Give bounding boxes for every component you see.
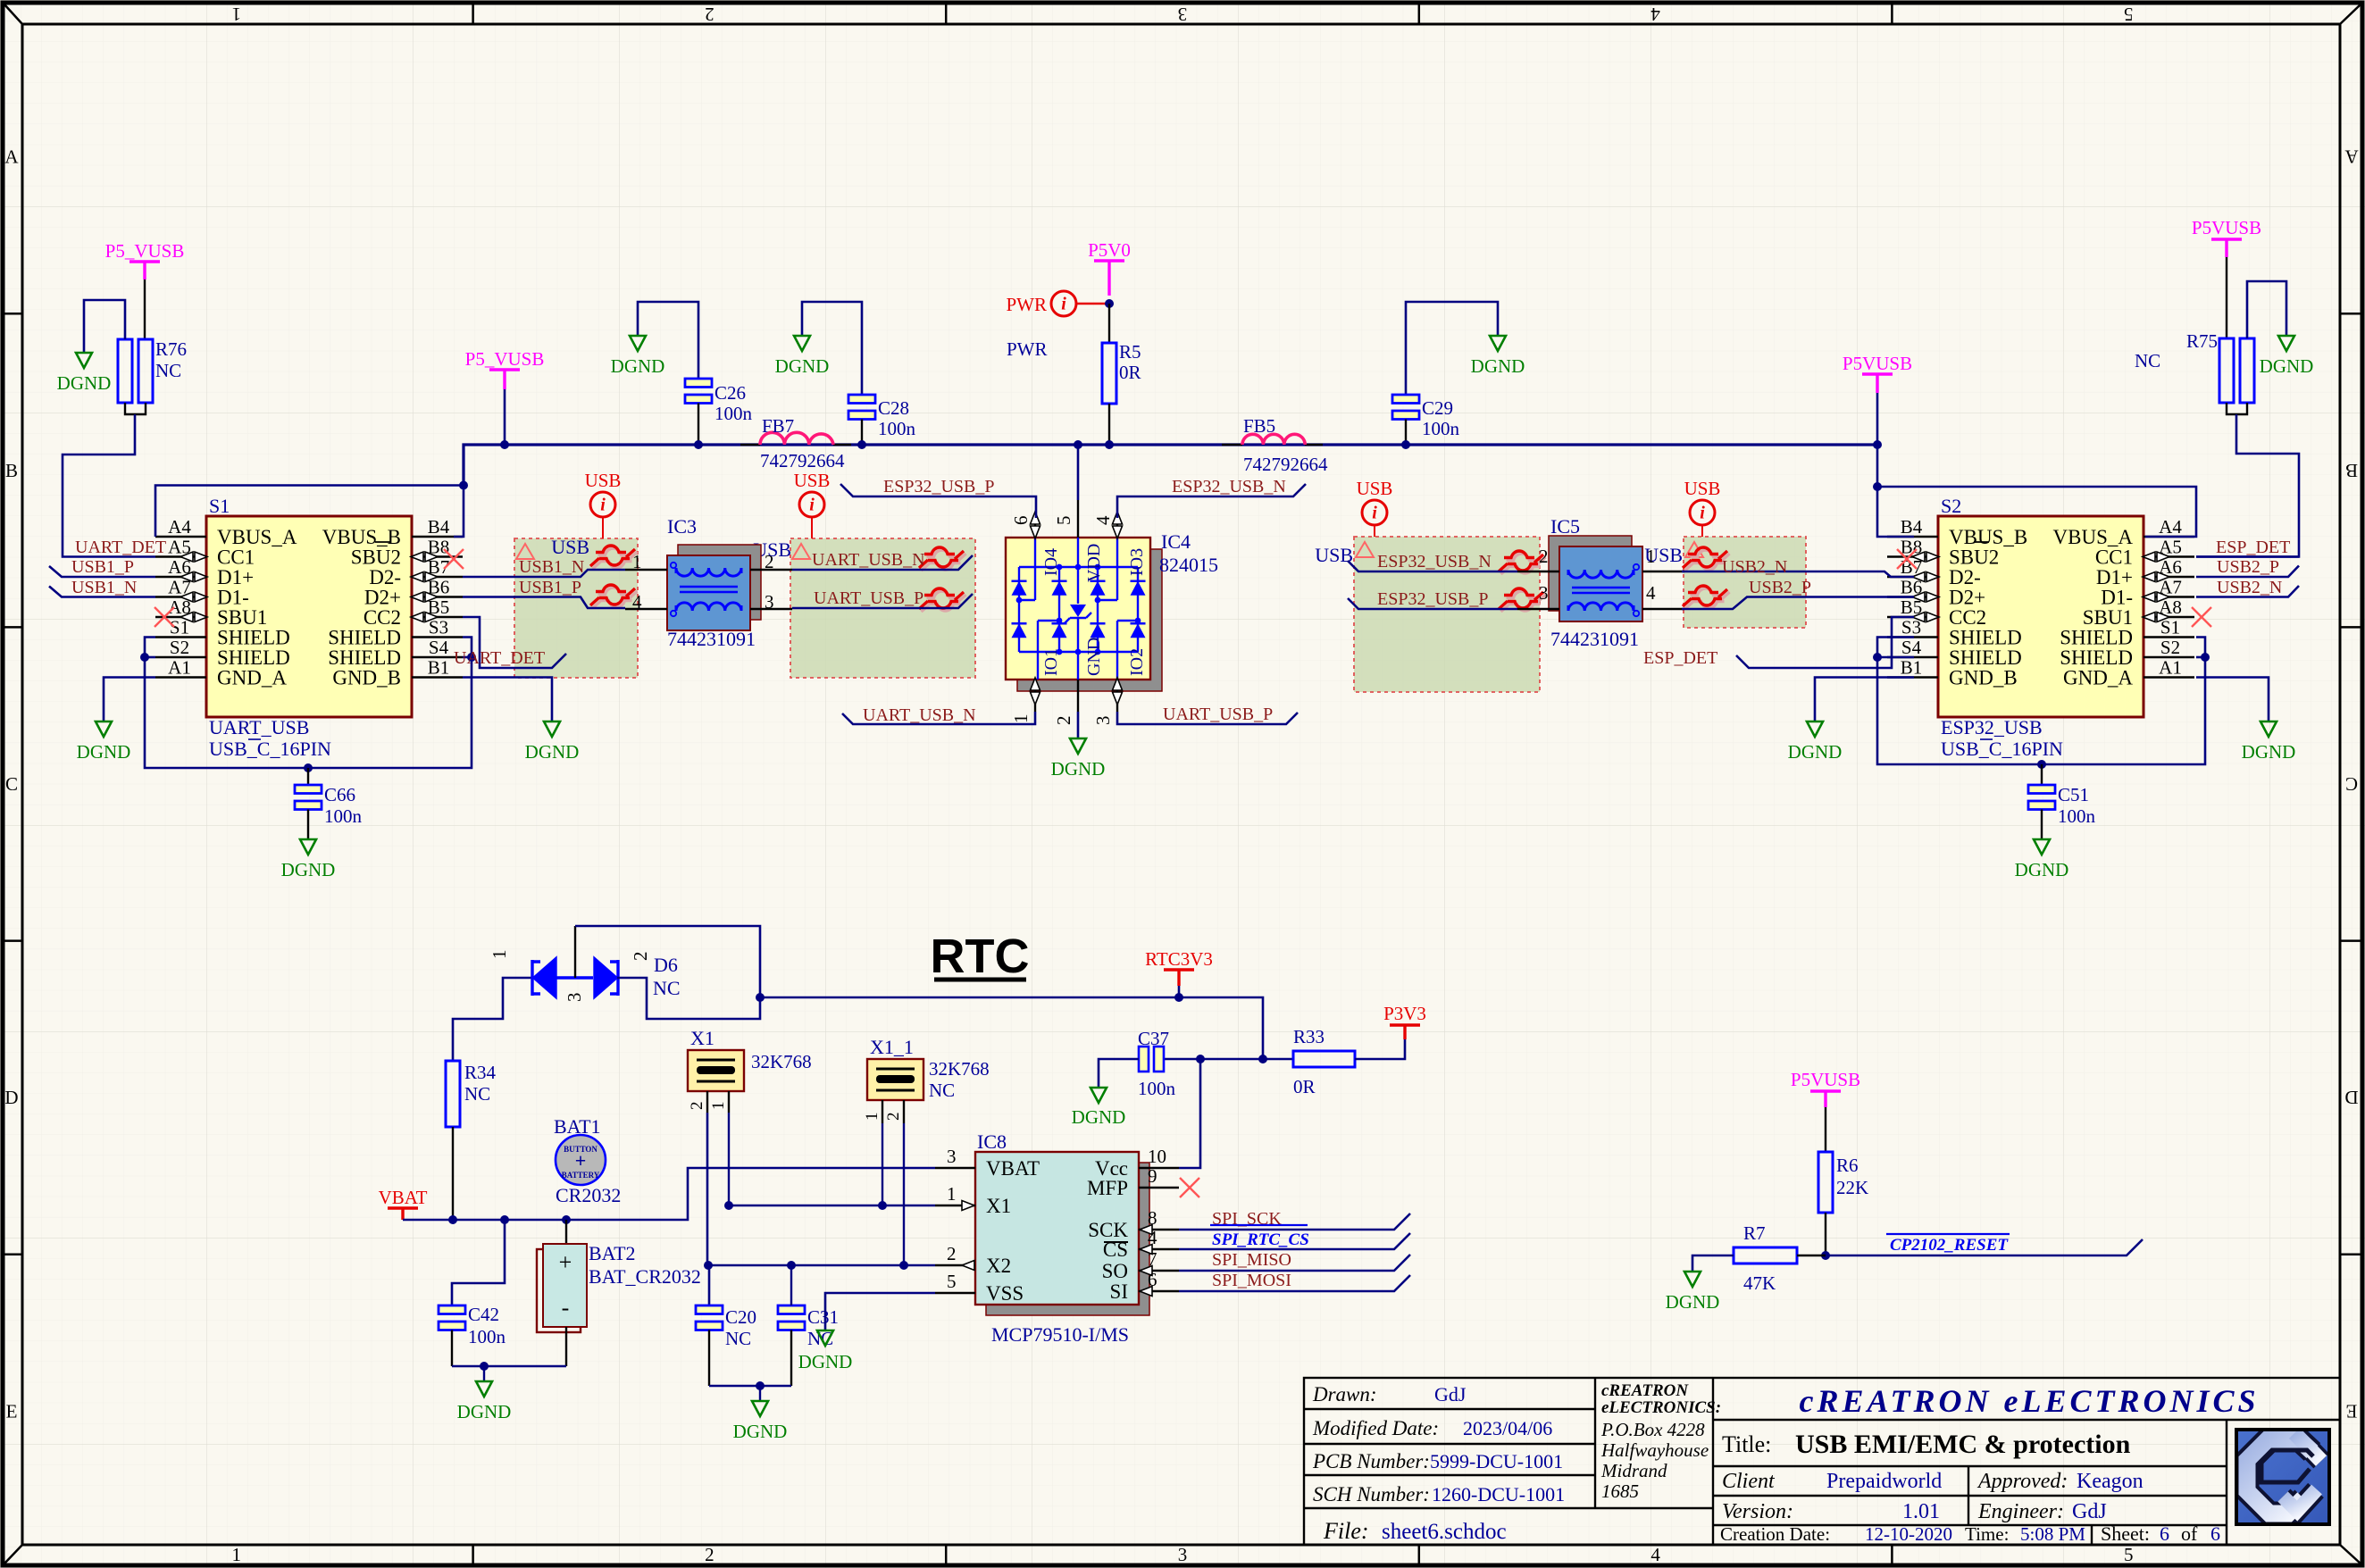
node X1row-816	[724, 1201, 733, 1210]
capacitor C29	[1392, 395, 1419, 404]
svg-text:VBUS_B: VBUS_B	[322, 526, 401, 548]
node bus-R5	[1105, 440, 1114, 449]
svg-text:B7: B7	[1901, 556, 1923, 578]
svg-text:100n: 100n	[878, 418, 916, 439]
capacitor C51	[2028, 785, 2055, 794]
wire X1.2 drop	[707, 1113, 709, 1305]
svg-text:eLECTRONICS:: eLECTRONICS:	[1601, 1398, 1721, 1417]
wire ESP_DET (S2 CC1)	[2196, 555, 2299, 558]
svg-text:S4: S4	[429, 637, 449, 658]
svg-text:i: i	[600, 496, 606, 515]
svg-text:DGND: DGND	[2015, 859, 2069, 880]
svg-text:S3: S3	[429, 617, 448, 638]
wire SPI_MISO	[1179, 1255, 1410, 1271]
svg-text:P5VUSB: P5VUSB	[2192, 217, 2261, 238]
no-ERC S2 B8	[1897, 549, 1917, 569]
svg-text:12-10-2020: 12-10-2020	[1865, 1523, 1952, 1545]
svg-text:100n: 100n	[468, 1326, 506, 1347]
svg-text:C37: C37	[1138, 1028, 1169, 1049]
svg-text:4: 4	[632, 591, 642, 613]
ground DGND (C29)	[1490, 336, 1506, 351]
svg-text:2: 2	[630, 952, 651, 962]
svg-text:UART_USB_P: UART_USB_P	[1163, 705, 1273, 724]
svg-text:0R: 0R	[1293, 1076, 1316, 1097]
ground DGND (C66)	[300, 839, 316, 855]
wire S1 GND_A to DGND	[104, 678, 155, 722]
wire USB1_N	[463, 570, 625, 577]
svg-text:USB2_N: USB2_N	[1722, 557, 1787, 577]
svg-text:X1: X1	[986, 1195, 1011, 1217]
svg-text:i: i	[1372, 504, 1377, 523]
no-ERC S1 A8	[155, 607, 174, 627]
svg-text:ESP_DET: ESP_DET	[1643, 648, 1717, 668]
svg-text:A5: A5	[168, 537, 191, 558]
svg-text:SBU1: SBU1	[217, 606, 267, 629]
svg-text:2: 2	[1539, 546, 1549, 567]
wire R7 to R6 node	[1797, 1255, 1826, 1256]
ground DGND (C37)	[1091, 1088, 1107, 1103]
svg-text:6: 6	[1010, 516, 1032, 526]
svg-text:S1: S1	[2160, 617, 2180, 638]
wire R6 bottom	[1825, 1213, 1826, 1255]
node rail-R34	[448, 1215, 457, 1224]
svg-text:A8: A8	[2159, 596, 2182, 618]
wire VSS to DGND	[825, 1293, 935, 1330]
svg-text:USB: USB	[1684, 478, 1721, 499]
ground DGND (C42/BAT2)	[476, 1381, 492, 1397]
ground DGND (S2 GND_B)	[1807, 721, 1823, 737]
node bus-P5VUSB	[500, 440, 509, 449]
svg-text:USB: USB	[551, 536, 589, 558]
svg-text:FB5: FB5	[1243, 415, 1275, 437]
wire P5VUSB stem S2	[1876, 393, 1879, 445]
svg-text:BAT1: BAT1	[554, 1115, 601, 1138]
svg-text:R76: R76	[155, 338, 187, 360]
svg-text:USB2_P: USB2_P	[1749, 578, 1811, 597]
svg-text:R5: R5	[1119, 341, 1141, 363]
svg-text:RTC: RTC	[931, 930, 1030, 983]
X1_1 pin stubs	[882, 1100, 883, 1123]
svg-text:D2-: D2-	[1949, 566, 1981, 588]
svg-text:Engineer:: Engineer:	[1977, 1500, 2064, 1523]
svg-text:B1: B1	[428, 657, 450, 679]
svg-text:DGND: DGND	[733, 1421, 788, 1442]
blanket USB pair (S1 side)	[514, 538, 638, 678]
capacitor C42	[439, 1305, 465, 1314]
svg-text:R75: R75	[2186, 330, 2218, 352]
svg-text:ESP32_USB_N: ESP32_USB_N	[1377, 552, 1492, 571]
IC4 bottom pin stubs	[1034, 680, 1036, 712]
svg-text:ESP_DET: ESP_DET	[2216, 538, 2290, 557]
svg-text:5999-DCU-1001: 5999-DCU-1001	[1430, 1450, 1563, 1472]
svg-text:Sheet:: Sheet:	[2101, 1522, 2150, 1545]
svg-text:IO1: IO1	[1041, 648, 1061, 676]
svg-text:3: 3	[1092, 716, 1114, 726]
svg-text:CC1: CC1	[217, 546, 255, 569]
svg-text:B5: B5	[428, 596, 450, 618]
wire X1_1.1 drop	[882, 1123, 883, 1205]
svg-text:USB: USB	[1315, 544, 1353, 566]
svg-text:5:08 PM: 5:08 PM	[2020, 1523, 2085, 1545]
wire RTC3V3 rail	[760, 997, 1263, 1059]
svg-text:cREATRON eLECTRONICS: cREATRON eLECTRONICS	[1799, 1383, 2259, 1419]
svg-text:22K: 22K	[1836, 1177, 1868, 1198]
svg-text:D2-: D2-	[369, 566, 401, 588]
wire X1_1.2 drop	[903, 1123, 905, 1265]
node D6-RTC3V3	[756, 993, 765, 1002]
wire UART_USB_P (IC4)	[1117, 712, 1298, 724]
svg-text:CC1: CC1	[2095, 546, 2133, 569]
svg-text:USB: USB	[794, 470, 831, 491]
svg-text:47K: 47K	[1743, 1272, 1776, 1294]
svg-text:D6: D6	[654, 954, 678, 976]
USB-C connector S1 body	[206, 516, 412, 717]
resistor R6	[1818, 1152, 1833, 1213]
svg-text:3: 3	[1539, 582, 1549, 604]
wire C37 left to DGND	[1099, 1059, 1139, 1088]
svg-text:100n: 100n	[715, 403, 753, 424]
svg-text:P5_VUSB: P5_VUSB	[105, 240, 185, 262]
wire S2 S4pin	[1877, 656, 1914, 659]
svg-text:D1+: D1+	[217, 566, 254, 588]
svg-text:VDD: VDD	[1084, 544, 1104, 582]
ground DGND (S1 GND_B)	[544, 721, 560, 737]
svg-text:SHIELD: SHIELD	[217, 646, 290, 669]
svg-text:B4: B4	[1901, 516, 1923, 538]
svg-text:DGND: DGND	[775, 355, 830, 377]
no-ERC S2 A8	[2192, 607, 2211, 627]
wire USB1_P stub	[49, 566, 155, 577]
ESD array IC4 body	[1006, 538, 1150, 680]
wire R75 bottom to ESP_DET	[2227, 403, 2247, 414]
wire ESP32_USB_N (IC4)	[1117, 484, 1306, 518]
wire Vcc riser	[1179, 1059, 1200, 1168]
svg-text:S2: S2	[170, 637, 189, 658]
svg-text:B: B	[2345, 460, 2358, 481]
crystal X1	[688, 1050, 744, 1091]
wire VBUS_A feed	[155, 486, 464, 538]
svg-text:SHIELD: SHIELD	[2060, 646, 2133, 669]
S1 pin stubs	[155, 536, 206, 538]
svg-text:BATTERY: BATTERY	[562, 1171, 600, 1180]
svg-text:32K768: 32K768	[751, 1051, 812, 1072]
node X2row-1012	[899, 1261, 908, 1270]
wire S2 shield right riser	[2042, 638, 2205, 765]
wire USB2_N (to S2)	[1682, 571, 1914, 577]
svg-text:GND_A: GND_A	[2063, 667, 2133, 689]
ground DGND (C20/C31)	[752, 1401, 768, 1416]
common-mode choke IC3	[678, 545, 761, 620]
svg-text:DGND: DGND	[1051, 758, 1106, 780]
svg-text:ESP32_USB: ESP32_USB	[1941, 716, 2043, 738]
svg-text:1.01: 1.01	[1902, 1500, 1940, 1523]
svg-text:4: 4	[1148, 1227, 1157, 1248]
svg-text:3: 3	[1178, 4, 1188, 25]
svg-text:GND: GND	[1084, 638, 1104, 676]
svg-text:R6: R6	[1836, 1155, 1859, 1176]
blanket ESP32_USB pair	[1354, 537, 1540, 692]
svg-text:C26: C26	[715, 382, 746, 404]
svg-text:GND_A: GND_A	[217, 667, 287, 689]
capacitor C28	[848, 395, 875, 404]
svg-text:D: D	[2344, 1087, 2358, 1108]
wire S1 shield right riser	[308, 638, 472, 769]
svg-text:2: 2	[705, 1544, 715, 1565]
wire IC4 GND to DGND	[1077, 712, 1080, 738]
ground DGND (S1 GND_A)	[96, 721, 112, 737]
svg-text:CC2: CC2	[1949, 606, 1986, 629]
svg-text:DGND: DGND	[798, 1351, 853, 1372]
svg-text:VBUS_A: VBUS_A	[2053, 526, 2134, 548]
svg-text:USB2_N: USB2_N	[2217, 578, 2282, 597]
svg-text:BAT_CR2032: BAT_CR2032	[589, 1265, 701, 1288]
svg-text:4: 4	[1650, 4, 1660, 25]
svg-text:1: 1	[632, 551, 642, 572]
capacitor C66	[295, 785, 322, 794]
wire S2 VBUS riser	[1877, 445, 1914, 537]
svg-text:SHIELD: SHIELD	[328, 627, 401, 649]
svg-text:C: C	[2345, 773, 2358, 795]
node S1-S4pin	[467, 653, 476, 662]
node X1row-988	[878, 1201, 887, 1210]
svg-text:PWR: PWR	[1007, 338, 1048, 360]
wire C42 top	[452, 1220, 505, 1305]
svg-text:A7: A7	[2159, 577, 2182, 598]
svg-text:5: 5	[947, 1271, 957, 1292]
svg-text:100n: 100n	[1422, 418, 1460, 439]
svg-text:ESP32_USB_N: ESP32_USB_N	[1172, 477, 1286, 496]
svg-text:DGND: DGND	[281, 859, 336, 880]
wire C29 top to DGND	[1406, 302, 1498, 395]
wire USB2_P (to S2)	[1682, 597, 1914, 610]
diffpair squiggle UART_USB_P	[922, 591, 966, 612]
svg-text:S1: S1	[170, 617, 189, 638]
svg-text:C29: C29	[1422, 397, 1453, 419]
ground DGND (C28)	[794, 336, 810, 351]
svg-text:3: 3	[765, 591, 774, 613]
ground DGND (R76)	[76, 353, 92, 368]
svg-text:i: i	[1700, 504, 1705, 523]
resistor R7	[1734, 1247, 1797, 1264]
wire UART_USB_N (IC4)	[842, 712, 1035, 724]
wire UART_USB_N	[792, 555, 973, 570]
svg-text:B6: B6	[1901, 577, 1923, 598]
svg-text:2023/04/06: 2023/04/06	[1463, 1417, 1552, 1439]
svg-text:A6: A6	[168, 556, 191, 578]
svg-text:VSS: VSS	[986, 1282, 1024, 1305]
svg-text:3: 3	[947, 1146, 957, 1167]
svg-text:3: 3	[564, 993, 585, 1003]
title block table	[1304, 1378, 2340, 1545]
node X2row-793	[704, 1261, 713, 1270]
ferrite bead FB5	[1222, 444, 1242, 446]
svg-text:VBUS_A: VBUS_A	[217, 526, 297, 548]
svg-text:DGND: DGND	[2242, 741, 2296, 763]
svg-text:7: 7	[1148, 1248, 1157, 1270]
svg-text:MCP79510-I/MS: MCP79510-I/MS	[991, 1323, 1129, 1346]
svg-text:Keagon: Keagon	[2077, 1470, 2144, 1493]
svg-text:VBUS_B: VBUS_B	[1949, 526, 2027, 548]
svg-text:S2: S2	[1941, 495, 1961, 517]
svg-text:1685: 1685	[1601, 1480, 1639, 1502]
svg-text:Time:: Time:	[1965, 1523, 2009, 1545]
svg-text:IC4: IC4	[1161, 530, 1191, 553]
svg-text:USB EMI/EMC & protection: USB EMI/EMC & protection	[1795, 1430, 2131, 1459]
wire main VBUS bus	[464, 445, 1877, 486]
svg-text:GdJ: GdJ	[2072, 1500, 2107, 1523]
svg-text:1: 1	[489, 950, 510, 960]
svg-text:B6: B6	[428, 577, 450, 598]
svg-text:BAT2: BAT2	[589, 1242, 636, 1264]
USB-C connector S2 body	[1938, 516, 2144, 717]
svg-text:100n: 100n	[2058, 805, 2096, 827]
svg-text:NC: NC	[464, 1083, 490, 1105]
node gnd-rail-2	[756, 1381, 765, 1390]
svg-text:B4: B4	[428, 516, 450, 538]
svg-text:P5VUSB: P5VUSB	[1843, 353, 1912, 374]
node bus-A4	[459, 481, 468, 490]
wire C29 bottom	[1405, 420, 1407, 446]
wire UART_USB_P	[792, 594, 973, 608]
blanket USB2 pair	[1684, 537, 1806, 628]
node rail-RTC3V3	[1174, 993, 1183, 1002]
ground DGND (VSS)	[817, 1330, 833, 1346]
wire S1 S2pin	[145, 656, 155, 659]
no-ERC IC8 MFP	[1180, 1178, 1199, 1197]
svg-text:of: of	[2181, 1522, 2198, 1545]
wire ESP32_USB_P (IC4)	[840, 484, 1036, 518]
PWR parameter-set	[1051, 291, 1076, 316]
svg-text:C42: C42	[468, 1304, 499, 1325]
svg-text:SHIELD: SHIELD	[1949, 646, 2022, 669]
svg-text:File:: File:	[1323, 1518, 1369, 1544]
svg-text:4: 4	[1092, 515, 1114, 525]
svg-text:DGND: DGND	[1666, 1291, 1720, 1313]
svg-text:IO4: IO4	[1041, 548, 1061, 576]
svg-text:SHIELD: SHIELD	[328, 646, 401, 669]
svg-text:CR2032: CR2032	[556, 1184, 621, 1206]
svg-text:Halfwayhouse: Halfwayhouse	[1600, 1439, 1709, 1461]
resistor R5	[1102, 343, 1116, 404]
svg-text:D2+: D2+	[364, 587, 401, 609]
diffpair squiggle ESP32_USB_P	[1501, 591, 1546, 612]
svg-text:A6: A6	[2159, 556, 2182, 578]
svg-text:2: 2	[765, 551, 774, 572]
svg-text:S4: S4	[1901, 637, 1922, 658]
node S2-B4	[1873, 482, 1882, 491]
svg-text:D1+: D1+	[2096, 566, 2133, 588]
svg-text:DGND: DGND	[2260, 355, 2314, 377]
wire S1 S4pin	[463, 656, 472, 659]
node bus-IC4	[1074, 440, 1082, 449]
node row-C37	[1196, 1055, 1205, 1063]
svg-text:CC2: CC2	[364, 606, 401, 629]
ground DGND (S2 GND_A)	[2261, 721, 2277, 737]
svg-text:P3V3: P3V3	[1383, 1003, 1426, 1024]
resistor R34	[446, 1061, 460, 1127]
svg-text:C66: C66	[324, 784, 355, 805]
wire ESP32_USB_P (IC5)	[1348, 598, 1517, 609]
svg-text:NC: NC	[653, 977, 681, 999]
svg-text:UART_DET: UART_DET	[454, 648, 545, 668]
wire P5VUSB to R6	[1825, 1107, 1826, 1152]
svg-text:744231091: 744231091	[667, 628, 756, 650]
svg-text:D1-: D1-	[217, 587, 249, 609]
svg-text:DGND: DGND	[611, 355, 665, 377]
svg-text:3: 3	[1178, 1544, 1188, 1565]
wire UART_DET (S1 CC2)	[463, 617, 566, 668]
resistor R76	[118, 339, 132, 403]
svg-text:B8: B8	[428, 537, 450, 558]
svg-text:USB_C_16PIN: USB_C_16PIN	[209, 738, 331, 760]
wire R33 to P3V3	[1355, 1039, 1405, 1059]
svg-text:100n: 100n	[324, 805, 363, 827]
wire S2 GND_A to DGND	[2196, 678, 2269, 722]
common-mode choke IC5	[1549, 536, 1632, 611]
svg-text:Approved:: Approved:	[1976, 1470, 2068, 1493]
svg-text:A4: A4	[2159, 516, 2182, 538]
svg-text:A4: A4	[168, 516, 191, 538]
svg-text:IO2: IO2	[1127, 648, 1147, 676]
svg-text:i: i	[809, 496, 815, 515]
svg-text:A7: A7	[168, 577, 191, 598]
svg-text:P.O.Box 4228: P.O.Box 4228	[1600, 1419, 1705, 1440]
svg-text:Version:: Version:	[1722, 1500, 1793, 1523]
svg-text:S2: S2	[2160, 637, 2180, 658]
IC4 diode network	[1012, 538, 1146, 680]
node rail-C42	[500, 1215, 509, 1224]
svg-text:MFP: MFP	[1087, 1177, 1128, 1199]
wire ESP32_USB_N (IC5)	[1348, 561, 1517, 571]
svg-text:NC: NC	[155, 360, 181, 381]
ground DGND (R7)	[1684, 1272, 1701, 1287]
diffpair squiggle USB2_P	[1685, 588, 1730, 609]
svg-text:IC3: IC3	[667, 515, 697, 538]
svg-text:NC: NC	[2135, 350, 2160, 371]
wire D6 pin1 to R34	[453, 978, 531, 1061]
svg-text:DGND: DGND	[525, 741, 580, 763]
svg-text:A5: A5	[2159, 537, 2182, 558]
battery BAT2	[537, 1249, 581, 1332]
diffpair squiggle ESP32_USB_N	[1501, 554, 1546, 574]
wire P5VUSB to R75	[2226, 257, 2227, 338]
svg-text:2: 2	[1053, 716, 1074, 726]
svg-text:PWR: PWR	[1006, 294, 1047, 315]
wire C20-C31 gnd rail	[709, 1385, 791, 1388]
svg-text:E: E	[2346, 1400, 2358, 1422]
node bus-C28	[857, 440, 866, 449]
node S1-shield-C66	[304, 763, 313, 772]
node row-rail	[1258, 1055, 1267, 1063]
node rail-BAT2	[562, 1215, 571, 1224]
svg-text:USB1_N: USB1_N	[519, 557, 584, 577]
node X2row-886	[787, 1261, 796, 1270]
svg-text:SCH Number:: SCH Number:	[1313, 1483, 1430, 1505]
svg-text:ESP32_USB_P: ESP32_USB_P	[883, 477, 995, 496]
svg-text:DGND: DGND	[1471, 355, 1525, 377]
node gnd-rail-1	[480, 1362, 489, 1371]
svg-text:X2: X2	[986, 1255, 1011, 1277]
diffpair squiggle USB1_N	[593, 548, 638, 569]
svg-text:DGND: DGND	[77, 741, 131, 763]
wire C28 top to DGND	[802, 302, 862, 395]
svg-text:cREATRON: cREATRON	[1601, 1381, 1689, 1400]
svg-text:6: 6	[1148, 1269, 1157, 1290]
wire S2 shield left riser	[1877, 638, 2042, 765]
svg-text:742792664: 742792664	[1243, 454, 1328, 475]
svg-text:Client: Client	[1722, 1470, 1776, 1493]
svg-text:USB1_N: USB1_N	[71, 578, 137, 597]
